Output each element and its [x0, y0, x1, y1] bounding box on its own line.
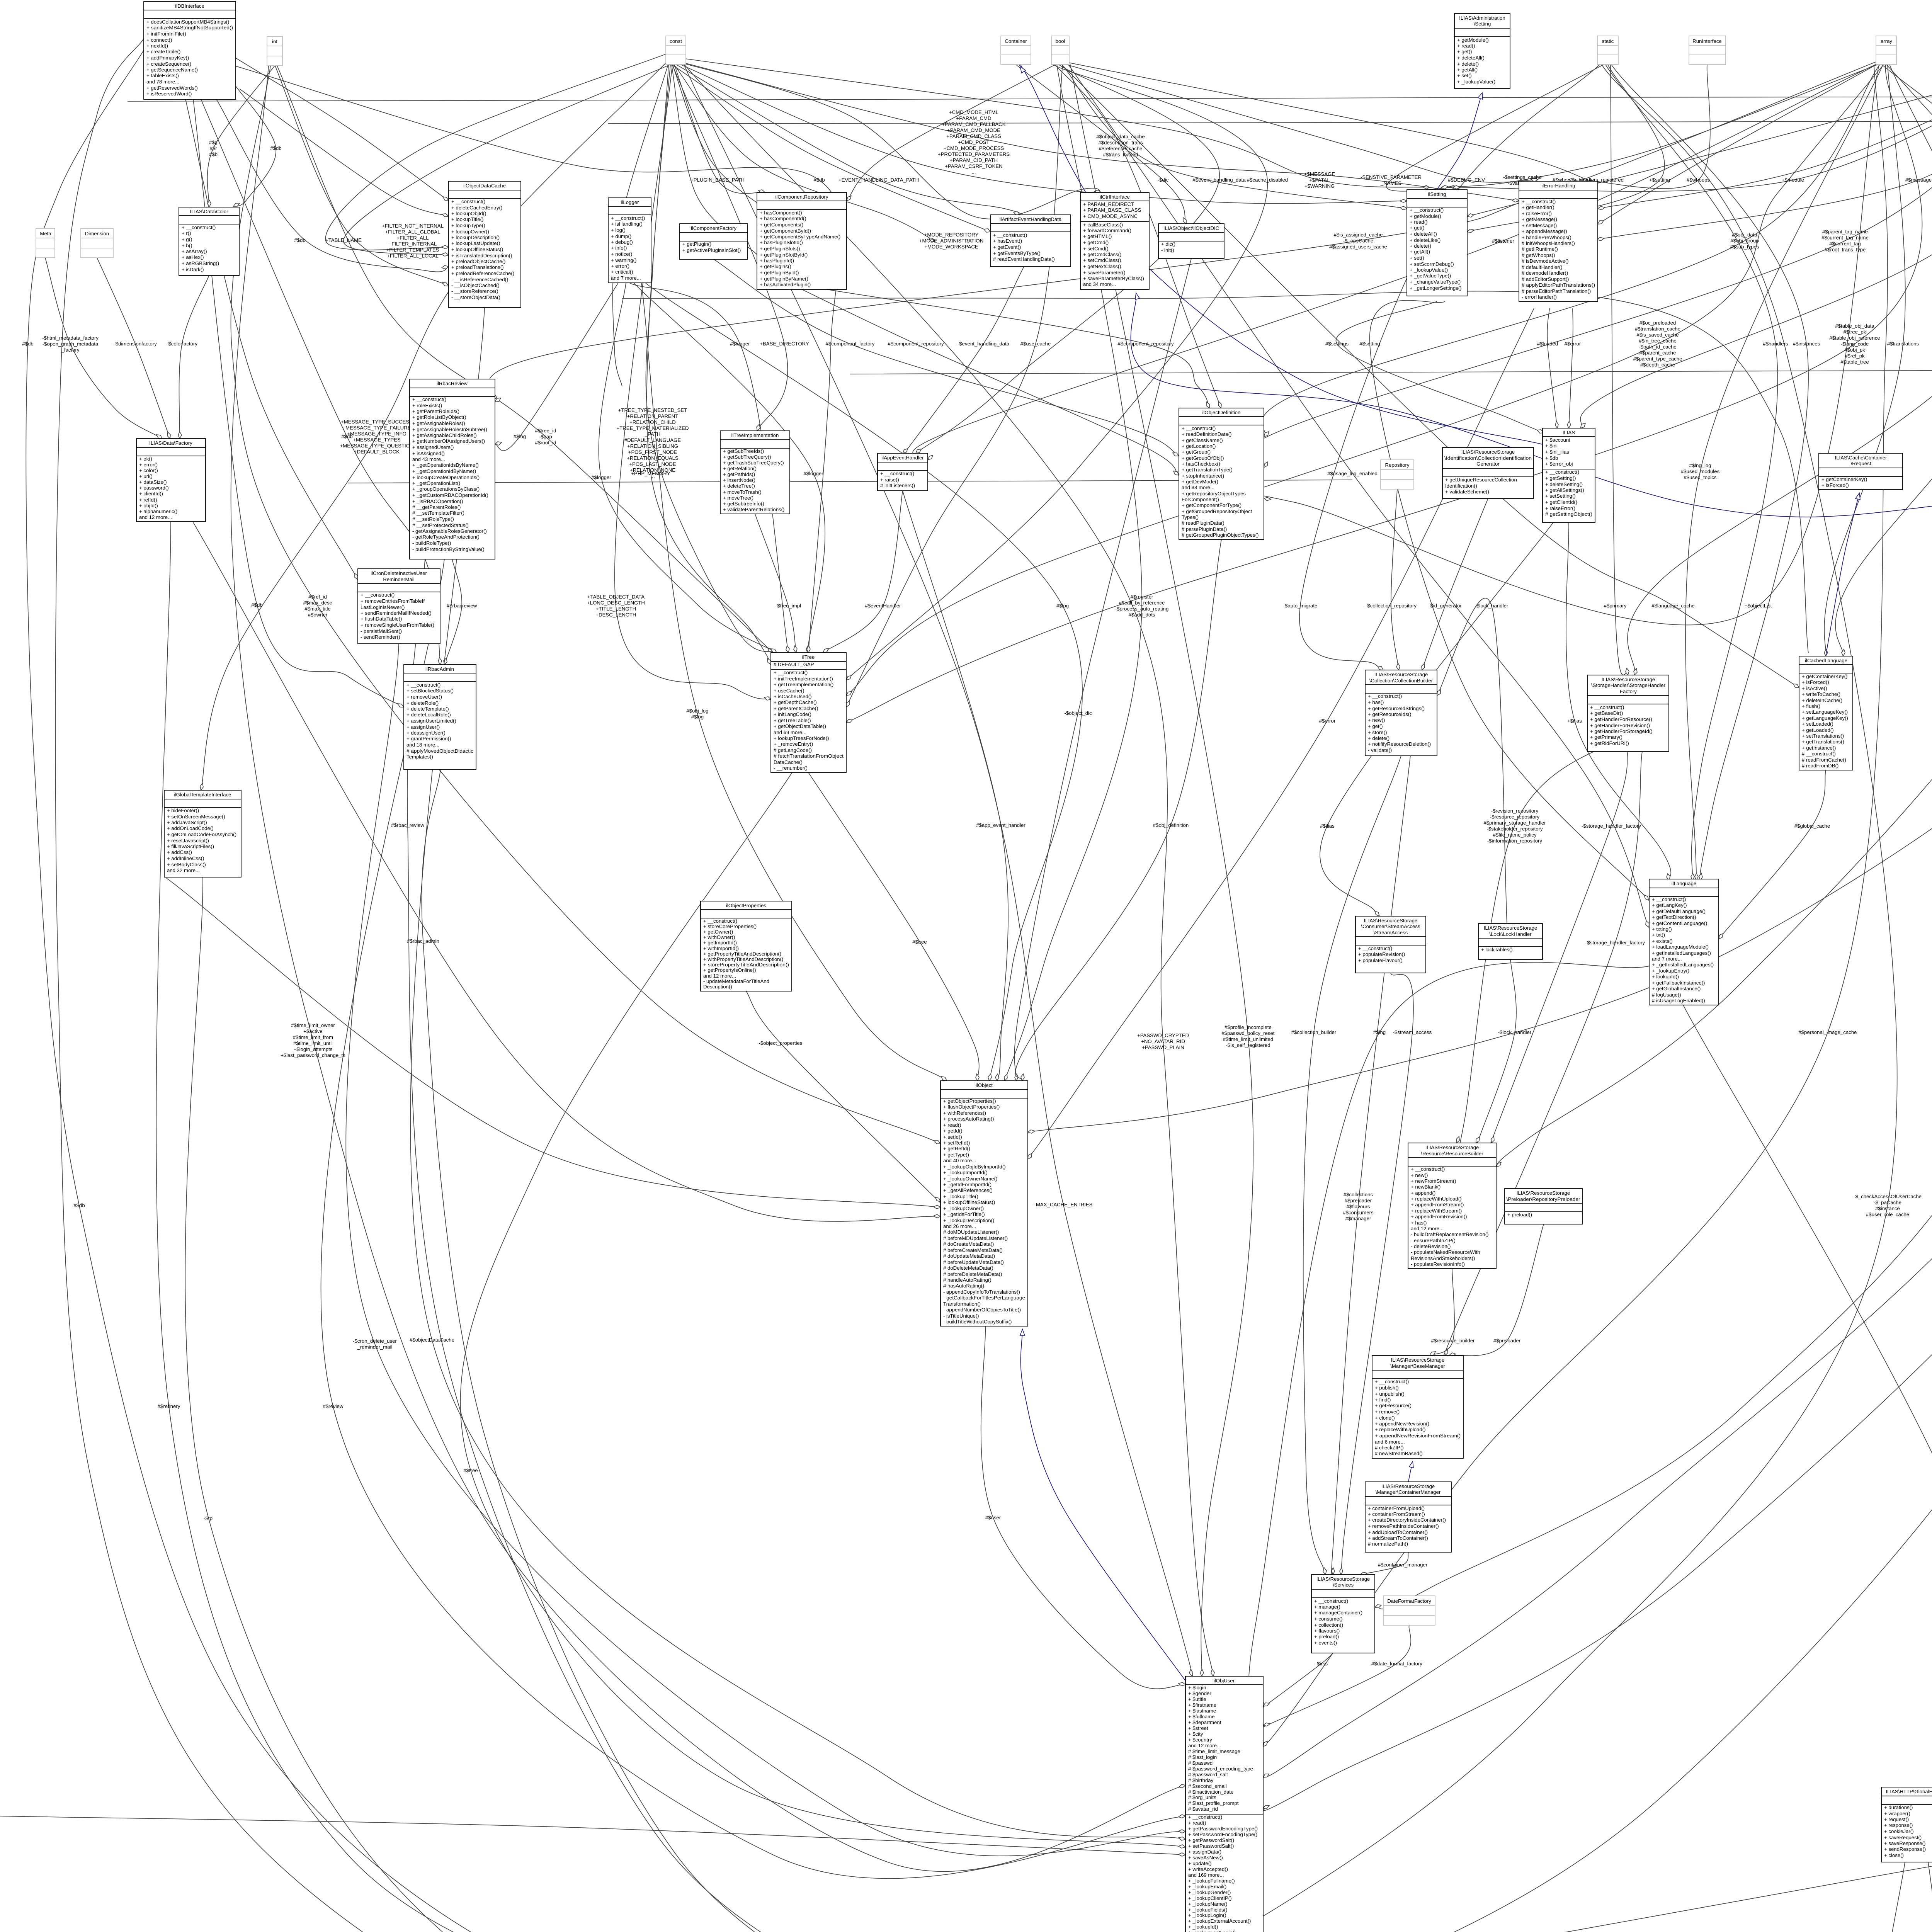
svg-text:# __getParentRoles(): # __getParentRoles() — [412, 504, 461, 510]
class CollectionBuilder — [1365, 670, 1437, 756]
svg-text:+ lockTables(): + lockTables() — [1481, 947, 1513, 952]
svg-text:+ r(): + r() — [182, 230, 191, 236]
svg-text:- __renumber(): - __renumber() — [774, 765, 808, 771]
class DataColor — [179, 207, 239, 276]
svg-text:+ insertNode(): + insertNode() — [723, 477, 755, 483]
svg-text:static: static — [1602, 38, 1614, 44]
svg-text:+ addStreamToContainer(): + addStreamToContainer() — [1368, 1535, 1428, 1541]
svg-text:ILIAS\ResourceStorage: ILIAS\ResourceStorage — [1517, 1190, 1570, 1196]
svg-text:+ getClassName(): + getClassName() — [1182, 437, 1223, 443]
svg-text:+BASE_DIRECTORY: +BASE_DIRECTORY — [760, 341, 809, 347]
wire e_bool_tree — [846, 65, 1267, 680]
svg-text:+ createDirectoryInsideContain: + createDirectoryInsideContainer() — [1368, 1517, 1446, 1523]
svg-text:- populateRevisionInfo(): - populateRevisionInfo() — [1411, 1261, 1465, 1267]
svg-text:+ getDepthCache(): + getDepthCache() — [774, 699, 817, 705]
svg-text:+ getRefId(): + getRefId() — [943, 1146, 970, 1151]
svg-text:+ getAll(): + getAll() — [1457, 67, 1478, 73]
svg-text:# $passwd: # $passwd — [1188, 1760, 1213, 1766]
class ilComponentRepository — [757, 192, 847, 289]
svg-text:ilObjectDefinition: ilObjectDefinition — [1202, 410, 1241, 415]
svg-text:+$ilias: +$ilias — [1567, 718, 1582, 724]
wire e_sa_services — [1341, 973, 1413, 1575]
svg-text:#$oc_preloaded#$translation_ca: #$oc_preloaded#$translation_cache#$is_sa… — [1633, 320, 1682, 368]
wire e_const_phpmem — [647, 65, 771, 665]
class int — [267, 36, 282, 66]
class ilTree — [771, 653, 846, 772]
svg-text:- appendNumberOfCopiesToTitle(: - appendNumberOfCopiesToTitle() — [943, 1307, 1021, 1313]
wire e_log_obj — [645, 283, 1082, 1081]
svg-text:#$logger: #$logger — [803, 471, 823, 476]
svg-text:+ lookupType(): + lookupType() — [451, 223, 485, 228]
svg-text:+ removePathInsideContainer(): + removePathInsideContainer() — [1368, 1523, 1439, 1529]
svg-text:+ loadLanguageModule(): + loadLanguageModule() — [1652, 944, 1709, 950]
svg-text:+ password(): + password() — [139, 485, 169, 491]
svg-text:+ getCmd(): + getCmd() — [1083, 240, 1109, 245]
svg-text:+ appendNewRevision(): + appendNewRevision() — [1375, 1421, 1429, 1427]
svg-text:+ preloadTranslations(): + preloadTranslations() — [451, 264, 503, 270]
svg-text:+ preloadObjectCache(): + preloadObjectCache() — [451, 259, 505, 264]
svg-text:+ _getOperationIdByName(): + _getOperationIdByName() — [412, 468, 476, 474]
svg-text:+ readDefinitionData(): + readDefinitionData() — [1182, 431, 1231, 437]
svg-text:+ lookupLastUpdate(): + lookupLastUpdate() — [451, 240, 500, 246]
svg-text:+ $street: + $street — [1188, 1725, 1208, 1731]
svg-text:# doUpdateMetaData(): # doUpdateMetaData() — [943, 1253, 995, 1259]
wire e_cm_services — [1360, 1552, 1408, 1575]
svg-text:-$colorfactory: -$colorfactory — [167, 341, 197, 347]
svg-text:ILIAS\ResourceStorage: ILIAS\ResourceStorage — [1425, 1145, 1479, 1150]
svg-text:#$logger: #$logger — [730, 341, 750, 347]
svg-text:+ useCache(): + useCache() — [774, 688, 804, 694]
wire e_cf4 — [613, 65, 668, 386]
svg-text:ilArtifactEventHandlingData: ilArtifactEventHandlingData — [1000, 216, 1062, 222]
svg-text:+ isDark(): + isDark() — [182, 267, 204, 272]
svg-text:+ getComponentByTypeAndName(): + getComponentByTypeAndName() — [760, 234, 840, 240]
svg-text:+ __construct(): + __construct() — [406, 682, 440, 688]
wire e_d12 — [847, 64, 1057, 201]
wire e_array_og — [1882, 65, 1932, 326]
svg-text:+ getComponentForType(): + getComponentForType() — [1182, 502, 1242, 508]
wire e_bool_whr — [1065, 62, 1593, 183]
svg-text:+ log(): + log() — [611, 227, 626, 233]
svg-text:+ writeToCache(): + writeToCache() — [1802, 691, 1840, 697]
svg-text:+ getEvent(): + getEvent() — [993, 244, 1021, 250]
svg-text:#$refinery: #$refinery — [158, 1403, 180, 1409]
svg-text:# devmodeHandler(): # devmodeHandler() — [1522, 270, 1568, 276]
svg-text:+ addPrimaryKey(): + addPrimaryKey() — [146, 55, 189, 61]
svg-text:+ find(): + find() — [1375, 1397, 1391, 1403]
svg-text:+ _lookupOwner(): + _lookupOwner() — [943, 1206, 984, 1211]
svg-text:+ __construct(): + __construct() — [703, 918, 737, 924]
svg-text:+ getPluginById(): + getPluginById() — [760, 270, 799, 276]
svg-text:+ addOnLoadCode(): + addOnLoadCode() — [167, 825, 214, 831]
svg-text:+ objId(): + objId() — [139, 503, 158, 509]
svg-text:+ replaceWithUpload(): + replaceWithUpload() — [1375, 1427, 1426, 1432]
svg-text:+ initLangCode(): + initLangCode() — [774, 711, 811, 717]
wire e_const_tablename — [344, 65, 670, 255]
svg-text:+ getGroupOfObj(): + getGroupOfObj() — [1182, 455, 1224, 461]
svg-text:+ __construct(): + __construct() — [1411, 1166, 1445, 1172]
svg-text:- persistMailSent(): - persistMailSent() — [361, 628, 402, 634]
svg-text:# fetchTranslationFromObject: # fetchTranslationFromObject — [774, 753, 844, 759]
svg-text:+ stopInheritance(): + stopInheritance() — [1182, 473, 1224, 479]
svg-text:+ setBlockedStatus(): + setBlockedStatus() — [406, 688, 454, 694]
svg-text:+MODE_REPOSITORY+MODE_ADMINIST: +MODE_REPOSITORY+MODE_ADMINISTRATION+MOD… — [919, 232, 983, 250]
svg-text:#$loaded: #$loaded — [1537, 341, 1558, 347]
svg-text:+ newBlank(): + newBlank() — [1411, 1184, 1440, 1190]
svg-text:ForComponent(): ForComponent() — [1182, 497, 1219, 502]
wire bus3 — [622, 291, 1808, 653]
svg-text:+ removeUser(): + removeUser() — [406, 694, 442, 700]
svg-text:# $second_email: # $second_email — [1188, 1783, 1227, 1789]
svg-text:+ asHex(): + asHex() — [182, 254, 204, 260]
svg-text:+ getSubTreeQuery(): + getSubTreeQuery() — [723, 454, 771, 460]
svg-text:+ getLoaded(): + getLoaded() — [1802, 727, 1834, 733]
svg-text:#$rbac_review: #$rbac_review — [391, 822, 424, 828]
wire e_tree_user — [460, 772, 1185, 1847]
svg-text:+ getResource(): + getResource() — [1375, 1403, 1412, 1408]
svg-text:+ callBaseClass(): + callBaseClass() — [1083, 222, 1123, 228]
wire e_rev_blk — [1457, 734, 1628, 1150]
svg-text:# getSettingObject(): # getSettingObject() — [1545, 511, 1592, 517]
svg-text:+ _isRBACOperation(): + _isRBACOperation() — [412, 498, 463, 504]
svg-text:+ getAllSettings(): + getAllSettings() — [1545, 487, 1584, 493]
svg-text:+ $lastname: + $lastname — [1188, 1708, 1216, 1714]
svg-text:ILIAS\Administration: ILIAS\Administration — [1459, 15, 1505, 21]
svg-text:+ getTreeImplementation(): + getTreeImplementation() — [774, 682, 833, 687]
class ilObjectDefinition — [1179, 408, 1264, 539]
svg-text:+ initTreeImplementation(): + initTreeImplementation() — [774, 676, 833, 682]
svg-text:+ error(): + error() — [139, 462, 158, 468]
svg-text:+ unpublish(): + unpublish() — [1375, 1391, 1405, 1397]
svg-text:+ initFromIniFile(): + initFromIniFile() — [146, 31, 186, 37]
svg-text:- init(): - init() — [1161, 247, 1174, 253]
svg-text:+ deleteSetting(): + deleteSetting() — [1545, 481, 1583, 487]
svg-text:#$language_cache: #$language_cache — [1651, 603, 1694, 609]
svg-text:\Lock\LockHandler: \Lock\LockHandler — [1489, 931, 1532, 937]
wire e_db_tree — [234, 66, 842, 653]
wire e_bool_aeh — [916, 65, 1219, 453]
svg-text:ILIAS\ResourceStorage: ILIAS\ResourceStorage — [1602, 677, 1655, 682]
svg-text:+ preload(): + preload() — [1314, 1634, 1339, 1639]
svg-text:+ __construct(): + __construct() — [361, 592, 395, 598]
wire e_array_tod — [846, 65, 1922, 723]
svg-text:+ raise(): + raise() — [880, 477, 899, 483]
svg-text:and 7 more...: and 7 more... — [1652, 956, 1682, 962]
svg-text:+ _removeEntry(): + _removeEntry() — [774, 741, 813, 747]
svg-text:-$object_dic: -$object_dic — [1064, 710, 1092, 716]
svg-text:+ lookupOwner(): + lookupOwner() — [451, 229, 489, 235]
svg-text:ilErrorHandling: ilErrorHandling — [1541, 183, 1575, 189]
svg-text:+ notififyResourceDeletion(): + notififyResourceDeletion() — [1368, 741, 1431, 747]
wire bus5 — [348, 480, 1352, 483]
svg-text:+ flushDataTable(): + flushDataTable() — [361, 616, 402, 622]
svg-text:ilDBInterface: ilDBInterface — [175, 3, 204, 9]
svg-text:+ $utitle: + $utitle — [1188, 1696, 1206, 1702]
wire inh_ilsetting_adminsetting — [1437, 93, 1482, 189]
svg-text:+ saveResponse(): + saveResponse() — [1884, 1840, 1925, 1846]
wire e_d2 — [677, 61, 1519, 201]
svg-text:+ getRoleListByObject(): + getRoleListByObject() — [412, 414, 466, 420]
svg-text:+ exists(): + exists() — [1652, 938, 1673, 944]
svg-text:#$collections#$preloader#$flav: #$collections#$preloader#$flavours#$cons… — [1343, 1192, 1374, 1221]
class Meta — [36, 228, 55, 258]
svg-text:and 34 more...: and 34 more... — [1083, 281, 1116, 287]
svg-text:+ getDevMode(): + getDevMode() — [1182, 479, 1218, 485]
svg-text:and 12 more...: and 12 more... — [1188, 1743, 1221, 1748]
svg-text:+ getSubTreeIds(): + getSubTreeIds() — [723, 448, 764, 454]
svg-text:+ moveToTrash(): + moveToTrash() — [723, 489, 762, 495]
svg-text:#$tree: #$tree — [912, 939, 927, 945]
svg-text:# normalizePath(): # normalizePath() — [1368, 1541, 1408, 1547]
svg-text:# newStreamBased(): # newStreamBased() — [1375, 1451, 1423, 1456]
wire e_admin_rs — [422, 769, 924, 1932]
svg-text:# getLangCode(): # getLangCode() — [774, 747, 812, 753]
svg-text:# $birthday: # $birthday — [1188, 1777, 1214, 1783]
svg-text:+ _lookupEmail(): + _lookupEmail() — [1188, 1884, 1226, 1889]
svg-text:#$global_cache: #$global_cache — [1794, 823, 1830, 829]
svg-text:+ getOwner(): + getOwner() — [703, 929, 733, 935]
svg-text:LastLoginIsNewer(): LastLoginIsNewer() — [361, 604, 405, 610]
svg-text:#$use_cache: #$use_cache — [1020, 341, 1051, 347]
svg-text:- validate(): - validate() — [1368, 747, 1392, 753]
svg-text:+ get(): + get() — [1410, 225, 1424, 231]
svg-text:#$primary: #$primary — [1604, 603, 1627, 609]
svg-text:ilTree: ilTree — [802, 654, 815, 660]
svg-text:+ close(): + close() — [1884, 1852, 1904, 1858]
svg-text:+$setting: +$setting — [1649, 177, 1670, 183]
svg-text:+ delete(): + delete() — [1410, 243, 1431, 249]
wire e_run_whoops — [1580, 65, 1710, 189]
wire e_array_prefs — [1263, 65, 1932, 1777]
svg-text:+ raiseError(): + raiseError() — [1522, 211, 1552, 216]
wire e_aeh_tree — [823, 491, 903, 653]
svg-text:- buildTitleWithoutCopySuffix(: - buildTitleWithoutCopySuffix() — [943, 1319, 1012, 1325]
svg-text:+ getResourceIds(): + getResourceIds() — [1368, 711, 1412, 717]
svg-text:RunInterface: RunInterface — [1692, 38, 1722, 44]
wire e_bool_usage — [1068, 65, 1649, 927]
svg-text:#$resource_builder: #$resource_builder — [1431, 1338, 1475, 1344]
svg-text:#$usage_log_enabled: #$usage_log_enabled — [1327, 471, 1378, 476]
svg-text:+ _lookupLastLogin(): + _lookupLastLogin() — [1188, 1930, 1236, 1932]
svg-text:\Preloader\RepositoryPreloader: \Preloader\RepositoryPreloader — [1507, 1196, 1581, 1202]
svg-text:# $time_limit_message: # $time_limit_message — [1188, 1748, 1240, 1754]
svg-text:-$event_handling_data: -$event_handling_data — [957, 341, 1010, 347]
svg-text:-$dimensionfactory: -$dimensionfactory — [114, 341, 157, 347]
wire e_shf_rb — [1488, 752, 1628, 1150]
svg-text:+ $country: + $country — [1188, 1737, 1212, 1743]
wire e_db_color — [233, 85, 276, 206]
svg-text:+ getBaseDir(): + getBaseDir() — [1590, 710, 1623, 716]
svg-text:+ getId(): + getId() — [943, 1128, 962, 1134]
svg-text:+ __construct(): + __construct() — [1545, 469, 1579, 475]
svg-text:+ __construct(): + __construct() — [1314, 1598, 1348, 1604]
svg-text:#$handlers: #$handlers — [1763, 341, 1788, 347]
wire inh_ilias_container — [1018, 61, 1543, 444]
svg-text:+ appendFromStream(): + appendFromStream() — [1411, 1202, 1464, 1207]
wire e_d7 — [275, 65, 449, 286]
svg-text:+ nextId(): + nextId() — [146, 43, 168, 49]
wire bus2 — [608, 120, 1932, 124]
svg-text:# applyEditorPathTranslations(: # applyEditorPathTranslations() — [1522, 282, 1595, 288]
svg-text:+ __construct(): + __construct() — [1522, 199, 1556, 204]
svg-text:+ _getOperationList(): + _getOperationList() — [412, 480, 460, 486]
svg-text:+ replaceWithUpload(): + replaceWithUpload() — [1411, 1196, 1462, 1202]
svg-text:# isDevmodeActive(): # isDevmodeActive() — [1522, 258, 1569, 264]
svg-text:+ appendFromRevision(): + appendFromRevision() — [1411, 1214, 1467, 1219]
svg-text:\Manager\BaseManager: \Manager\BaseManager — [1390, 1363, 1445, 1369]
svg-text:+ deleteCachedEntry(): + deleteCachedEntry() — [451, 205, 502, 211]
class LockHandler — [1478, 923, 1543, 959]
svg-text:+ ok(): + ok() — [139, 456, 152, 462]
svg-text:#$db: #$db — [341, 434, 352, 439]
svg-text:+ getPluginSlots(): + getPluginSlots() — [760, 246, 800, 252]
wire e_x3 — [0, 1816, 1185, 1855]
svg-text:#$review: #$review — [323, 1403, 344, 1409]
wire e_static_sens — [1386, 65, 1604, 191]
svg-text:ilAppEventHandler: ilAppEventHandler — [881, 455, 924, 461]
svg-text:+ validateScheme(): + validateScheme() — [1445, 489, 1489, 495]
wire e_x1 — [166, 878, 940, 1207]
class ilLogger — [608, 198, 651, 283]
svg-text:+ assignedUsers(): + assignedUsers() — [412, 444, 454, 450]
class DateFormatFactory — [1383, 1596, 1435, 1625]
svg-text:+ _lookupOwnerName(): + _lookupOwnerName() — [943, 1176, 997, 1182]
wire e_db_cron — [185, 99, 358, 580]
svg-text:+ setTranslations(): + setTranslations() — [1802, 733, 1844, 739]
svg-text:+ __construct(): + __construct() — [1368, 693, 1402, 699]
wire bus4 — [850, 369, 1932, 374]
wire e_x7 — [993, 1777, 1932, 1932]
svg-text:+ writeAccepted(): + writeAccepted() — [1188, 1866, 1228, 1872]
wire e_bool_dbgenv — [1066, 65, 1538, 182]
class CacheContainerRequest — [1819, 453, 1903, 490]
svg-text:ILIAS\ResourceStorage: ILIAS\ResourceStorage — [1316, 1576, 1370, 1582]
wire e_array_listener — [913, 64, 1877, 460]
wire e_static_setting — [1467, 65, 1665, 232]
svg-text:# __setProtectedStatus(): # __setProtectedStatus() — [412, 522, 469, 528]
svg-text:# $last_profile_prompt: # $last_profile_prompt — [1188, 1800, 1239, 1806]
wire e_logger_tree2 — [634, 283, 825, 653]
svg-text:#$db: #$db — [22, 341, 33, 347]
svg-text:+ withReferences(): + withReferences() — [943, 1110, 986, 1116]
svg-text:and 12 more...: and 12 more... — [703, 973, 736, 979]
svg-text:+ populateFlavour(): + populateFlavour() — [1358, 957, 1403, 963]
svg-text:+ $error_obj: + $error_obj — [1545, 461, 1573, 467]
svg-text:ilTreeImplementation: ilTreeImplementation — [731, 432, 779, 438]
svg-text:+ publish(): + publish() — [1375, 1385, 1399, 1391]
svg-text:\Identification\CollectionIden: \Identification\CollectionIdentification — [1444, 455, 1532, 461]
svg-text:-MAX_CACHE_ENTRIES: -MAX_CACHE_ENTRIES — [1034, 1202, 1093, 1207]
wire e_const_tree — [646, 65, 777, 653]
svg-text:# initWhoopsHandlers(): # initWhoopsHandlers() — [1522, 240, 1575, 246]
svg-text:ILIAS\ResourceStorage: ILIAS\ResourceStorage — [1364, 918, 1418, 923]
svg-text:+ getModule(): + getModule() — [1410, 213, 1441, 219]
svg-text:# parsePluginData(): # parsePluginData() — [1182, 526, 1227, 532]
svg-text:+ delete(): + delete() — [1457, 61, 1479, 67]
svg-text:+ $department: + $department — [1188, 1719, 1221, 1725]
svg-text:+ lookupTitle(): + lookupTitle() — [451, 216, 483, 222]
svg-text:+ getTrashSubTreeQuery(): + getTrashSubTreeQuery() — [723, 460, 784, 466]
svg-text:+ getPluginByName(): + getPluginByName() — [760, 276, 808, 282]
svg-text:+ getPropertyTitleAndDescripti: + getPropertyTitleAndDescription() — [703, 951, 781, 957]
svg-text:+ assignUserLimited(): + assignUserLimited() — [406, 718, 456, 724]
svg-text:+ getGroupedRepositoryObject: + getGroupedRepositoryObject — [1182, 509, 1252, 514]
svg-text:#$log: #$log — [514, 434, 526, 439]
class Repository — [1381, 460, 1414, 489]
wire e_cron_user — [346, 644, 1185, 1856]
svg-text:+ get(): + get() — [1457, 49, 1472, 54]
wire e_d8 — [240, 89, 449, 216]
svg-text:+ cookieJar(): + cookieJar() — [1884, 1828, 1914, 1834]
svg-text:+ createSequence(): + createSequence() — [146, 61, 191, 67]
svg-text:+ getObjectDataTable(): + getObjectDataTable() — [774, 723, 826, 729]
svg-text:+ _lookupLogin(): + _lookupLogin() — [1188, 1912, 1226, 1918]
svg-text:+ __construct(): + __construct() — [451, 199, 485, 204]
svg-text:+ connect(): + connect() — [146, 37, 172, 43]
wire e_rb_bm — [1430, 1269, 1454, 1355]
wire e_cb_services2 — [1331, 756, 1410, 1582]
wire e_lng_user — [1248, 962, 1649, 1708]
svg-text:+ setScormDebug(): + setScormDebug() — [1410, 261, 1454, 267]
svg-text:ilGlobalTemplateInterface: ilGlobalTemplateInterface — [174, 792, 231, 798]
svg-text:ILIAS\HTTP\GlobalHttpState: ILIAS\HTTP\GlobalHttpState — [1886, 1789, 1932, 1794]
class ilRbacAdmin — [404, 665, 476, 769]
svg-text:-$lock_handler: -$lock_handler — [1498, 1029, 1532, 1035]
svg-text:#$setting: #$setting — [1359, 341, 1380, 347]
wire e_string_ext — [1263, 65, 1932, 1811]
svg-text:- getCallbackForTitlesPerLangu: - getCallbackForTitlesPerLanguage — [943, 1295, 1025, 1301]
svg-text:# getWhoops(): # getWhoops() — [1522, 252, 1555, 258]
wire e_bool_langcache — [1061, 64, 1799, 688]
svg-text:# $avatar_rid: # $avatar_rid — [1188, 1806, 1218, 1812]
svg-text:and 7 more...: and 7 more... — [611, 275, 641, 281]
svg-text:# addEditorSupport(): # addEditorSupport() — [1522, 276, 1569, 282]
svg-text:+ _getIdForImportId(): + _getIdForImportId() — [943, 1182, 992, 1187]
svg-text:# getIlRuntime(): # getIlRuntime() — [1522, 246, 1558, 252]
svg-text:+ $firstname: + $firstname — [1188, 1702, 1216, 1708]
wire e_string_basedir — [1628, 65, 1932, 675]
svg-text:+ resetJavascript(): + resetJavascript() — [167, 838, 209, 844]
class GlobalHttpState — [1881, 1787, 1932, 1862]
svg-text:Templates(): Templates() — [406, 754, 433, 760]
svg-text:ilRbacAdmin: ilRbacAdmin — [425, 666, 454, 672]
class ilObject — [940, 1081, 1028, 1326]
svg-text:+ getHandlerForStorageId(): + getHandlerForStorageId() — [1590, 728, 1653, 734]
wire e_log_oblog — [641, 283, 947, 1081]
svg-text:# $last_login: # $last_login — [1188, 1754, 1217, 1760]
svg-text:+ saveParameter(): + saveParameter() — [1083, 270, 1126, 276]
wire e_d6 — [1598, 64, 1878, 224]
svg-text:#$container_manager: #$container_manager — [1378, 1562, 1428, 1568]
svg-text:+ $account: + $account — [1545, 437, 1570, 443]
svg-text:+ getPluginSlotById(): + getPluginSlotById() — [760, 252, 808, 258]
svg-text:+ _groupOperationsByClass(): + _groupOperationsByClass() — [412, 486, 480, 492]
svg-text:+ doesCollationSupportMB4Strin: + doesCollationSupportMB4Strings() — [146, 19, 229, 25]
wire e_string_rescache — [1496, 65, 1932, 1167]
wire e_static_cac — [993, 65, 1897, 1932]
svg-text:+EVENT_HANDLING_DATA_PATH: +EVENT_HANDLING_DATA_PATH — [838, 177, 919, 183]
svg-text:+ getPathIds(): + getPathIds() — [723, 471, 755, 477]
svg-text:+ __construct(): + __construct() — [880, 471, 914, 476]
svg-text:+ durations(): + durations() — [1884, 1804, 1913, 1810]
svg-text:+ appendNewRevisionFromStream(: + appendNewRevisionFromStream() — [1375, 1433, 1461, 1439]
svg-text:+ $city: + $city — [1188, 1731, 1203, 1737]
svg-text:+ info(): + info() — [611, 245, 627, 251]
svg-text:+ getReservedWords(): + getReservedWords() — [146, 85, 198, 91]
class CollectionIdGen — [1442, 447, 1534, 498]
svg-text:+ _lookupEntry(): + _lookupEntry() — [1652, 968, 1689, 974]
svg-text:+ getPlugins(): + getPlugins() — [760, 264, 791, 269]
